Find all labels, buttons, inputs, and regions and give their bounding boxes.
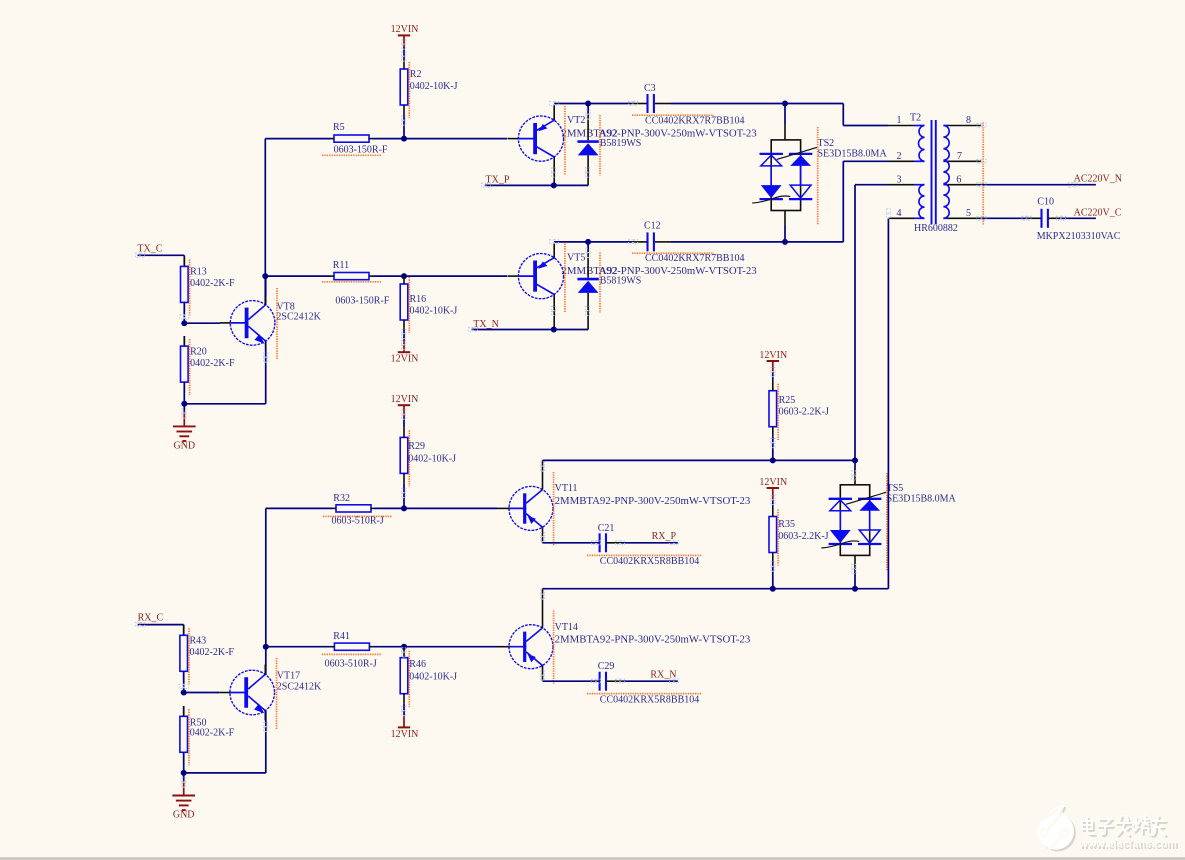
svg-text:TX_C: TX_C xyxy=(137,243,162,254)
svg-text:5: 5 xyxy=(966,208,971,219)
svg-text:B5819WS: B5819WS xyxy=(600,138,642,149)
svg-text:TS2: TS2 xyxy=(818,138,835,149)
svg-text:0402-10K-J: 0402-10K-J xyxy=(410,81,458,92)
svg-text:RX_C: RX_C xyxy=(138,613,164,624)
svg-text:VT14: VT14 xyxy=(555,622,578,633)
svg-text:8: 8 xyxy=(966,115,971,126)
svg-text:R43: R43 xyxy=(190,636,207,647)
svg-text:R41: R41 xyxy=(333,631,350,642)
svg-text:3: 3 xyxy=(897,174,902,185)
svg-text:0402-2K-F: 0402-2K-F xyxy=(190,278,235,289)
svg-text:0603-510R-J: 0603-510R-J xyxy=(325,658,377,669)
svg-text:12VIN: 12VIN xyxy=(391,24,419,35)
svg-text:R11: R11 xyxy=(333,260,349,271)
svg-text:R25: R25 xyxy=(779,395,796,406)
svg-text:C3: C3 xyxy=(644,83,656,94)
svg-text:R46: R46 xyxy=(409,659,426,670)
svg-text:12VIN: 12VIN xyxy=(759,477,787,488)
svg-text:6: 6 xyxy=(956,174,961,185)
svg-text:12VIN: 12VIN xyxy=(759,350,787,361)
svg-text:C12: C12 xyxy=(644,221,661,232)
svg-text:0603-150R-F: 0603-150R-F xyxy=(334,144,388,155)
svg-text:0603-2.2K-J: 0603-2.2K-J xyxy=(779,406,829,417)
svg-text:R5: R5 xyxy=(333,122,345,133)
svg-text:SE3D15B8.0MA: SE3D15B8.0MA xyxy=(887,493,957,504)
svg-text:R35: R35 xyxy=(778,519,795,530)
svg-text:2SC2412K: 2SC2412K xyxy=(276,312,321,323)
svg-text:0402-2K-F: 0402-2K-F xyxy=(190,727,235,738)
svg-text:VT5: VT5 xyxy=(567,253,585,264)
svg-text:MKPX2103310VAC: MKPX2103310VAC xyxy=(1037,231,1121,242)
svg-text:B5819WS: B5819WS xyxy=(600,276,642,287)
svg-text:GND: GND xyxy=(173,441,195,452)
svg-text:R16: R16 xyxy=(410,294,427,305)
svg-text:C21: C21 xyxy=(598,523,615,534)
svg-text:4: 4 xyxy=(897,208,902,219)
svg-text:0603-510R-J: 0603-510R-J xyxy=(332,516,384,527)
svg-text:R32: R32 xyxy=(333,493,350,504)
svg-text:1: 1 xyxy=(897,115,902,126)
svg-text:CC0402KRX5R8BB104: CC0402KRX5R8BB104 xyxy=(600,556,699,567)
svg-text:C10: C10 xyxy=(1037,196,1054,207)
svg-text:R29: R29 xyxy=(408,441,425,452)
svg-text:2MMBTA92-PNP-300V-250mW-VTSOT-: 2MMBTA92-PNP-300V-250mW-VTSOT-23 xyxy=(555,495,751,507)
svg-text:C29: C29 xyxy=(598,661,615,672)
svg-text:www.elecfans.com: www.elecfans.com xyxy=(1078,838,1177,850)
svg-text:T2: T2 xyxy=(910,112,921,123)
svg-text:VT11: VT11 xyxy=(555,483,578,494)
svg-text:2SC2412K: 2SC2412K xyxy=(277,682,322,693)
svg-text:GND: GND xyxy=(173,810,195,821)
svg-text:R2: R2 xyxy=(410,69,422,80)
svg-text:VT2: VT2 xyxy=(567,115,585,126)
svg-text:TX_P: TX_P xyxy=(486,175,510,186)
svg-text:0603-150R-F: 0603-150R-F xyxy=(335,296,389,307)
svg-text:0402-10K-J: 0402-10K-J xyxy=(409,671,457,682)
svg-text:TX_N: TX_N xyxy=(473,319,499,330)
svg-text:VT17: VT17 xyxy=(277,670,300,681)
svg-text:R20: R20 xyxy=(190,346,207,357)
svg-text:2: 2 xyxy=(897,151,902,162)
svg-text:12VIN: 12VIN xyxy=(391,354,419,365)
svg-text:0402-10K-J: 0402-10K-J xyxy=(408,454,456,465)
svg-text:SE3D15B8.0MA: SE3D15B8.0MA xyxy=(818,148,888,159)
svg-text:2MMBTA92-PNP-300V-250mW-VTSOT-: 2MMBTA92-PNP-300V-250mW-VTSOT-23 xyxy=(555,633,751,645)
svg-text:AC220V_C: AC220V_C xyxy=(1074,208,1122,219)
svg-text:R13: R13 xyxy=(190,267,207,278)
svg-text:0402-2K-F: 0402-2K-F xyxy=(190,358,235,369)
svg-text:0402-10K-J: 0402-10K-J xyxy=(410,306,458,317)
svg-text:0402-2K-F: 0402-2K-F xyxy=(190,647,235,658)
svg-text:0603-2.2K-J: 0603-2.2K-J xyxy=(778,531,828,542)
svg-text:12VIN: 12VIN xyxy=(391,729,419,740)
svg-text:CC0402KRX7R7BB104: CC0402KRX7R7BB104 xyxy=(645,116,744,127)
svg-text:CC0402KRX5R8BB104: CC0402KRX5R8BB104 xyxy=(600,694,699,705)
svg-text:AC220V_N: AC220V_N xyxy=(1074,174,1122,185)
svg-text:HR600882: HR600882 xyxy=(914,223,958,234)
svg-text:12VIN: 12VIN xyxy=(391,394,419,405)
svg-text:CC0402KRX7R7BB104: CC0402KRX7R7BB104 xyxy=(645,253,744,264)
svg-text:7: 7 xyxy=(957,151,962,162)
